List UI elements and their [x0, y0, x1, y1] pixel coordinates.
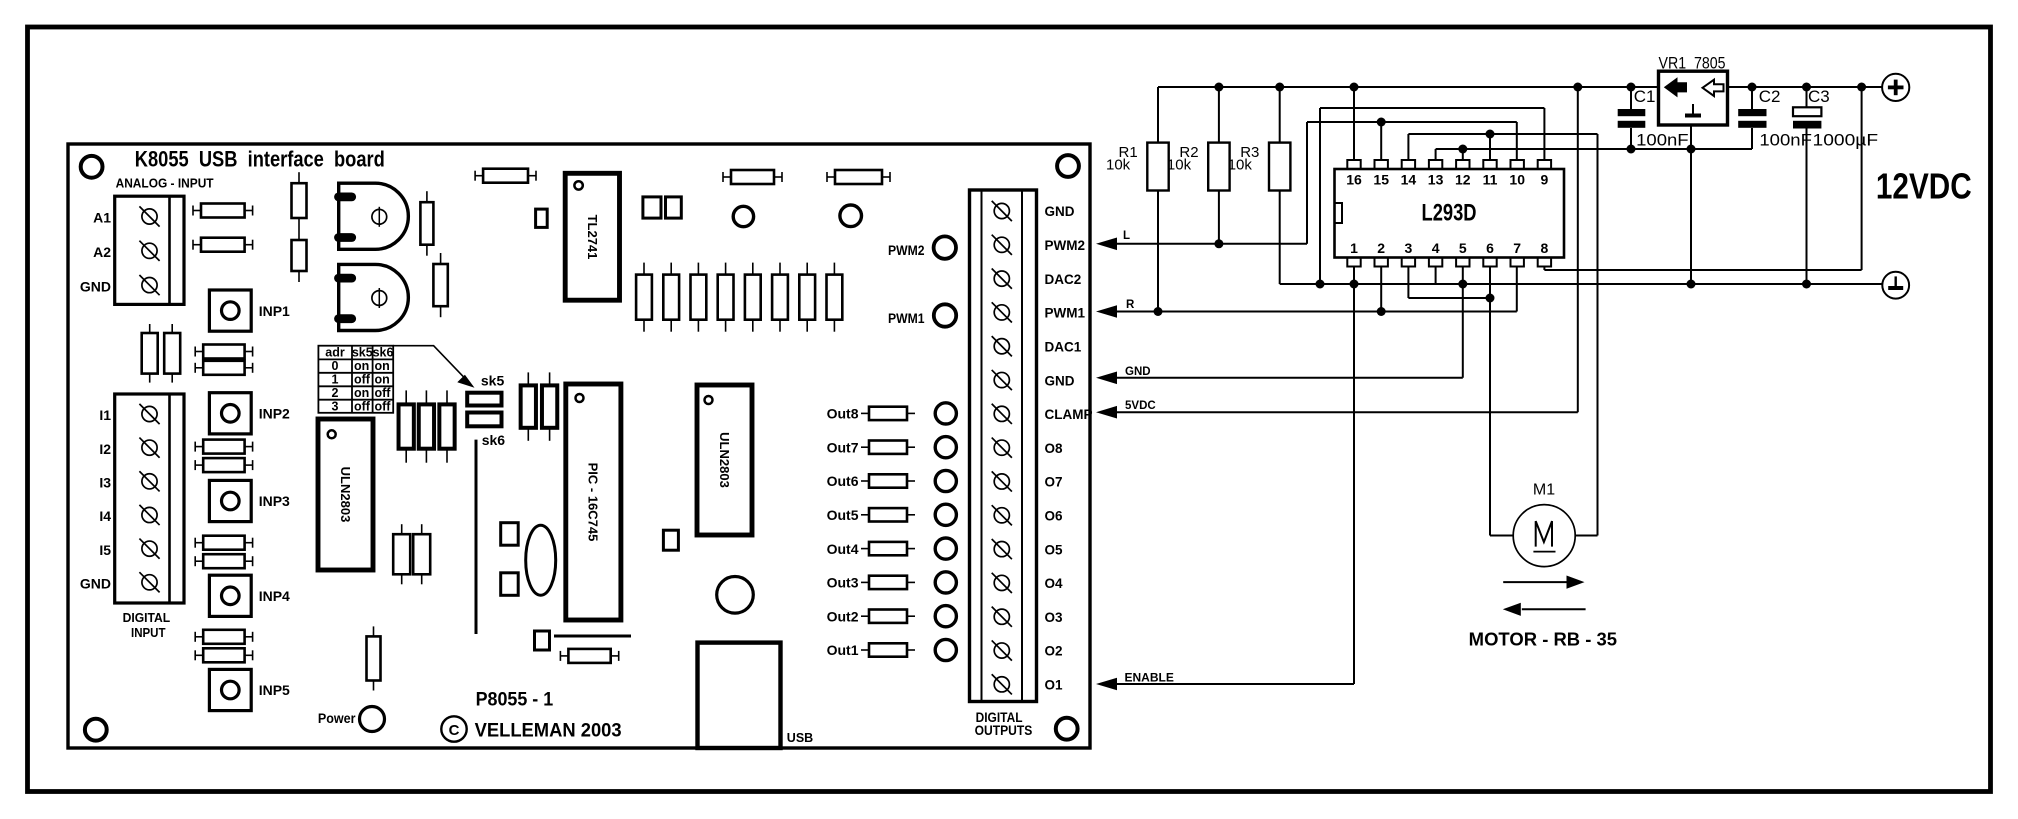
svg-text:on: on [354, 359, 369, 373]
svg-text:12VDC: 12VDC [1876, 166, 1972, 207]
svg-text:GND: GND [1125, 366, 1151, 378]
svg-text:P8055 - 1: P8055 - 1 [476, 690, 554, 711]
svg-text:3: 3 [1405, 240, 1413, 256]
svg-text:1000µF: 1000µF [1813, 131, 1879, 150]
svg-text:GND: GND [80, 576, 111, 592]
svg-text:8: 8 [1541, 240, 1549, 256]
svg-text:off: off [354, 372, 371, 386]
svg-text:A1: A1 [93, 210, 111, 226]
svg-text:PWM2: PWM2 [1045, 238, 1086, 253]
svg-text:C3: C3 [1808, 87, 1830, 106]
svg-text:15: 15 [1373, 172, 1389, 188]
svg-text:R: R [1126, 299, 1135, 311]
svg-text:INP3: INP3 [259, 493, 290, 509]
svg-text:Out7: Out7 [827, 439, 859, 455]
svg-text:INP2: INP2 [259, 406, 290, 422]
svg-text:16: 16 [1346, 172, 1362, 188]
svg-text:C1: C1 [1634, 87, 1656, 106]
svg-text:11: 11 [1483, 172, 1498, 188]
svg-text:O7: O7 [1045, 475, 1063, 490]
svg-text:TL2741: TL2741 [585, 215, 600, 260]
svg-text:off: off [354, 399, 371, 413]
svg-text:I4: I4 [99, 508, 111, 524]
svg-text:100nF: 100nF [1636, 131, 1689, 150]
svg-text:on: on [354, 386, 369, 400]
svg-text:Out1: Out1 [827, 642, 859, 658]
svg-text:2: 2 [1377, 240, 1385, 256]
svg-text:sk5: sk5 [481, 372, 505, 388]
svg-text:ULN2803: ULN2803 [717, 432, 732, 488]
svg-text:O1: O1 [1045, 678, 1064, 693]
svg-text:Out8: Out8 [827, 406, 859, 422]
svg-text:14: 14 [1401, 172, 1417, 188]
svg-text:Out5: Out5 [827, 507, 859, 523]
svg-text:PWM2: PWM2 [888, 243, 925, 258]
svg-text:9: 9 [1541, 172, 1549, 188]
svg-text:INP5: INP5 [259, 682, 290, 698]
svg-text:INPUT: INPUT [131, 625, 166, 640]
svg-text:VR1 7805: VR1 7805 [1659, 53, 1726, 72]
svg-text:on: on [375, 372, 390, 386]
svg-text:M1: M1 [1533, 481, 1555, 498]
svg-text:5VDC: 5VDC [1125, 400, 1156, 412]
svg-text:0: 0 [332, 359, 339, 373]
svg-text:5: 5 [1459, 240, 1467, 256]
svg-text:DAC1: DAC1 [1045, 339, 1082, 354]
svg-text:MOTOR - RB - 35: MOTOR - RB - 35 [1469, 629, 1617, 649]
svg-text:ENABLE: ENABLE [1125, 671, 1174, 685]
svg-text:100nF: 100nF [1759, 131, 1812, 150]
svg-text:10: 10 [1509, 172, 1525, 188]
svg-text:O5: O5 [1045, 542, 1064, 557]
svg-text:I5: I5 [99, 542, 111, 558]
svg-text:USB: USB [787, 731, 813, 745]
svg-text:6: 6 [1486, 240, 1494, 256]
svg-text:off: off [375, 399, 392, 413]
svg-text:O4: O4 [1045, 576, 1064, 591]
svg-text:K8055 USB interface board: K8055 USB interface board [135, 146, 385, 171]
svg-text:DIGITAL: DIGITAL [123, 610, 171, 625]
svg-text:sk5: sk5 [352, 346, 373, 360]
svg-text:C2: C2 [1759, 87, 1781, 106]
svg-text:sk6: sk6 [482, 432, 506, 448]
svg-text:GND: GND [80, 278, 111, 294]
svg-text:A2: A2 [93, 244, 111, 260]
svg-text:INP1: INP1 [259, 303, 290, 319]
svg-text:L: L [1123, 230, 1130, 242]
svg-text:sk6: sk6 [373, 346, 394, 360]
svg-text:GND: GND [1045, 373, 1075, 388]
svg-text:Out2: Out2 [827, 608, 859, 624]
svg-text:4: 4 [1432, 240, 1440, 256]
svg-text:PIC - 16C745: PIC - 16C745 [586, 463, 601, 542]
svg-text:L293D: L293D [1422, 200, 1477, 227]
svg-text:10k: 10k [1106, 157, 1131, 174]
svg-text:13: 13 [1428, 172, 1444, 188]
svg-text:I2: I2 [99, 441, 111, 457]
svg-text:ANALOG - INPUT: ANALOG - INPUT [116, 177, 214, 191]
svg-text:2: 2 [332, 386, 339, 400]
svg-text:on: on [375, 359, 390, 373]
svg-text:Out3: Out3 [827, 575, 859, 591]
svg-text:O2: O2 [1045, 644, 1063, 659]
svg-text:VELLEMAN 2003: VELLEMAN 2003 [475, 721, 622, 742]
svg-text:DAC2: DAC2 [1045, 272, 1082, 287]
svg-text:PWM1: PWM1 [888, 311, 925, 326]
svg-text:O3: O3 [1045, 610, 1064, 625]
svg-text:PWM1: PWM1 [1045, 306, 1086, 321]
svg-text:10k: 10k [1167, 157, 1192, 174]
svg-text:ULN2803: ULN2803 [338, 467, 353, 523]
svg-text:INP4: INP4 [259, 588, 290, 604]
svg-text:12: 12 [1455, 172, 1471, 188]
svg-text:Out4: Out4 [827, 541, 859, 557]
svg-text:10k: 10k [1228, 157, 1253, 174]
svg-text:O6: O6 [1045, 508, 1064, 523]
svg-text:OUTPUTS: OUTPUTS [975, 723, 1033, 738]
svg-text:O8: O8 [1045, 441, 1064, 456]
svg-text:Power: Power [318, 711, 356, 726]
svg-text:off: off [375, 386, 392, 400]
svg-text:1: 1 [332, 372, 339, 386]
svg-text:GND: GND [1045, 204, 1075, 219]
svg-text:adr: adr [325, 346, 345, 360]
svg-text:3: 3 [332, 399, 339, 413]
svg-text:I3: I3 [99, 475, 111, 491]
svg-text:7: 7 [1513, 240, 1521, 256]
svg-text:Out6: Out6 [827, 473, 859, 489]
svg-text:I1: I1 [99, 407, 111, 423]
svg-text:CLAMP: CLAMP [1045, 407, 1093, 422]
svg-text:1: 1 [1350, 240, 1358, 256]
svg-text:C: C [449, 722, 460, 739]
